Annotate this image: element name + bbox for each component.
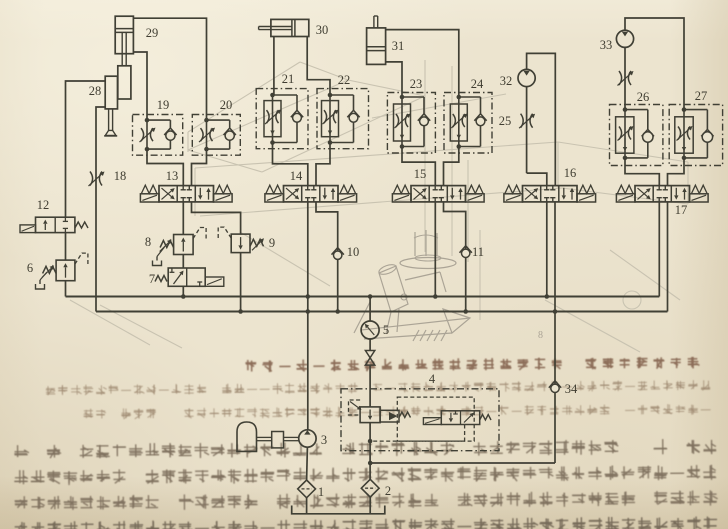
- svg-text:34: 34: [565, 382, 578, 396]
- svg-text:25: 25: [499, 114, 512, 128]
- svg-text:26: 26: [637, 90, 650, 104]
- svg-text:27: 27: [695, 89, 708, 103]
- svg-text:24: 24: [471, 77, 484, 91]
- svg-text:20: 20: [220, 98, 233, 112]
- svg-text:6: 6: [27, 261, 33, 275]
- svg-text:12: 12: [37, 198, 50, 212]
- svg-text:8: 8: [145, 235, 151, 249]
- svg-text:29: 29: [146, 26, 159, 40]
- svg-text:7: 7: [149, 272, 155, 286]
- svg-text:9: 9: [269, 236, 275, 250]
- svg-text:18: 18: [114, 169, 127, 183]
- svg-text:5: 5: [383, 323, 389, 337]
- svg-text:21: 21: [282, 72, 295, 86]
- svg-text:11: 11: [472, 245, 484, 259]
- svg-text:3: 3: [321, 433, 327, 447]
- svg-text:32: 32: [500, 74, 513, 88]
- svg-text:1: 1: [318, 485, 324, 499]
- svg-text:14: 14: [290, 169, 303, 183]
- svg-text:4: 4: [429, 372, 436, 386]
- svg-text:15: 15: [414, 167, 427, 181]
- svg-text:22: 22: [338, 73, 351, 87]
- svg-text:16: 16: [564, 166, 577, 180]
- svg-text:2: 2: [385, 484, 391, 498]
- svg-text:17: 17: [675, 203, 688, 217]
- svg-text:33: 33: [600, 38, 613, 52]
- svg-text:30: 30: [316, 23, 329, 37]
- svg-text:23: 23: [410, 77, 423, 91]
- svg-text:10: 10: [347, 245, 360, 259]
- svg-text:8: 8: [538, 330, 543, 341]
- svg-text:28: 28: [89, 84, 102, 98]
- svg-text:31: 31: [392, 39, 405, 53]
- svg-text:13: 13: [166, 169, 179, 183]
- svg-text:19: 19: [157, 98, 170, 112]
